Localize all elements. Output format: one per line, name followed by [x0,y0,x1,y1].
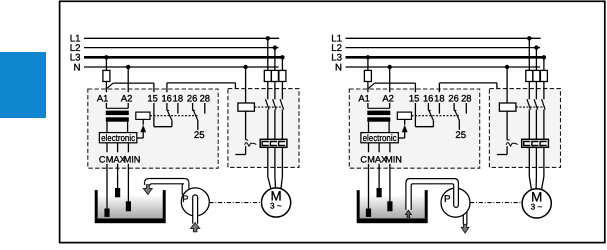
svg-text:electronic: electronic [101,133,135,143]
svg-text:18: 18 [434,92,444,103]
svg-text:P: P [444,194,450,205]
svg-text:N: N [335,62,342,73]
svg-text:15: 15 [409,92,419,103]
svg-text:25: 25 [194,130,205,141]
svg-text:P: P [182,193,188,204]
svg-text:15: 15 [147,92,157,103]
svg-text:MIN: MIN [385,154,402,164]
svg-text:N: N [74,62,81,73]
svg-text:28: 28 [461,92,471,103]
svg-text:28: 28 [200,92,210,103]
svg-text:A1: A1 [358,92,369,103]
svg-text:MIN: MIN [124,154,141,164]
svg-text:16: 16 [423,92,433,103]
svg-text:A2: A2 [121,92,132,103]
svg-text:A2: A2 [382,92,393,103]
svg-text:electronic: electronic [363,133,397,143]
svg-text:18: 18 [173,92,183,103]
svg-text:3 ~: 3 ~ [270,202,282,211]
svg-text:3 ~: 3 ~ [531,203,543,212]
svg-text:16: 16 [161,92,171,103]
svg-text:26: 26 [448,92,458,103]
svg-text:25: 25 [455,130,466,141]
svg-text:26: 26 [187,92,197,103]
svg-text:A1: A1 [97,92,108,103]
